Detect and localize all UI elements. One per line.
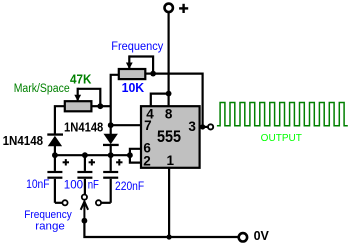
wire pin 4 to +V: [151, 94, 169, 107]
switch SW1 contact b: [82, 195, 87, 200]
junction VR1 wiper to track: [150, 71, 156, 77]
svg-text:Frequency: Frequency: [24, 209, 72, 221]
positive supply terminal: [165, 4, 173, 12]
label + supply: [179, 4, 188, 13]
svg-text:3: 3: [188, 119, 196, 134]
label Frequency range: [24, 209, 72, 233]
diode D2 1N4148: [103, 125, 119, 155]
wire pin 7: [111, 124, 141, 126]
svg-text:555: 555: [157, 127, 181, 146]
junction pins 6 2 to rail: [127, 152, 133, 158]
wire pin 2: [130, 155, 141, 162]
wire VR1 wiper loop: [129, 57, 153, 74]
capacitor C2 100nF: [77, 155, 92, 194]
potentiometer VR1 10K frequency: [119, 55, 146, 79]
svg-text:Frequency: Frequency: [111, 41, 163, 53]
svg-text:10K: 10K: [122, 80, 145, 95]
wire VR2 left end to D1: [55, 106, 65, 134]
wire timing node rail: [55, 154, 130, 156]
junction D2 C3 to rail: [108, 152, 114, 158]
label 100nF: [64, 177, 99, 191]
svg-text:Mark/Space: Mark/Space: [14, 83, 70, 95]
junction pin 1 to 0V rail: [167, 234, 172, 239]
svg-text:nF: nF: [88, 177, 99, 191]
output terminal: [208, 124, 213, 129]
wire VR2 wiper loop: [78, 89, 101, 106]
junction D1 to rail: [52, 152, 58, 158]
wire pin 3 output: [200, 126, 208, 128]
svg-text:1: 1: [167, 153, 175, 168]
svg-text:47K: 47K: [70, 71, 92, 86]
polarity + C1: [63, 159, 69, 165]
0V terminal: [239, 233, 247, 241]
svg-text:7: 7: [144, 118, 152, 133]
junction pin 3 node: [200, 124, 205, 129]
svg-text:0V: 0V: [254, 228, 270, 243]
junction +V to pins 4 and 8: [166, 91, 172, 97]
svg-text:8: 8: [165, 107, 173, 122]
capacitor C1 10nF: [47, 155, 62, 203]
wire VR1 to pin 3 node: [153, 74, 203, 127]
wire +V rail: [168, 12, 170, 107]
svg-text:220nF: 220nF: [115, 179, 144, 193]
junction C2 to rail: [82, 152, 88, 158]
svg-text:1N4148: 1N4148: [3, 133, 44, 148]
svg-text:100: 100: [64, 178, 84, 192]
junction VR2 wiper node: [97, 103, 103, 109]
output waveform: [217, 103, 348, 126]
wire VR2 node to pin 7 branch: [100, 105, 110, 107]
IC U1 555 timer body: [141, 106, 200, 168]
wire pin 6: [130, 149, 141, 155]
svg-text:10nF: 10nF: [26, 177, 49, 191]
wire VR1 right end: [145, 72, 153, 74]
svg-text:range: range: [35, 221, 65, 233]
wire pin 1 to 0V: [168, 168, 170, 237]
junction pin 7 node: [108, 122, 114, 128]
switch SW1 contact c: [96, 200, 101, 205]
wire VR1 left end: [111, 75, 119, 125]
switch SW1 wiper arrow: [81, 201, 88, 221]
polarity + C3: [116, 159, 122, 165]
svg-text:OUTPUT: OUTPUT: [261, 133, 302, 144]
junction switch common: [82, 218, 88, 224]
svg-text:1N4148: 1N4148: [64, 120, 103, 135]
wire switch common to 0V rail: [84, 221, 239, 237]
switch SW1 contact a: [62, 200, 67, 205]
wire VR2 right end: [91, 105, 100, 107]
capacitor C3 220nF: [101, 155, 118, 203]
diode D1 1N4148: [47, 133, 63, 155]
potentiometer VR2 47K mark-space: [65, 88, 92, 112]
svg-text:2: 2: [143, 153, 151, 168]
polarity + C2: [89, 159, 95, 165]
